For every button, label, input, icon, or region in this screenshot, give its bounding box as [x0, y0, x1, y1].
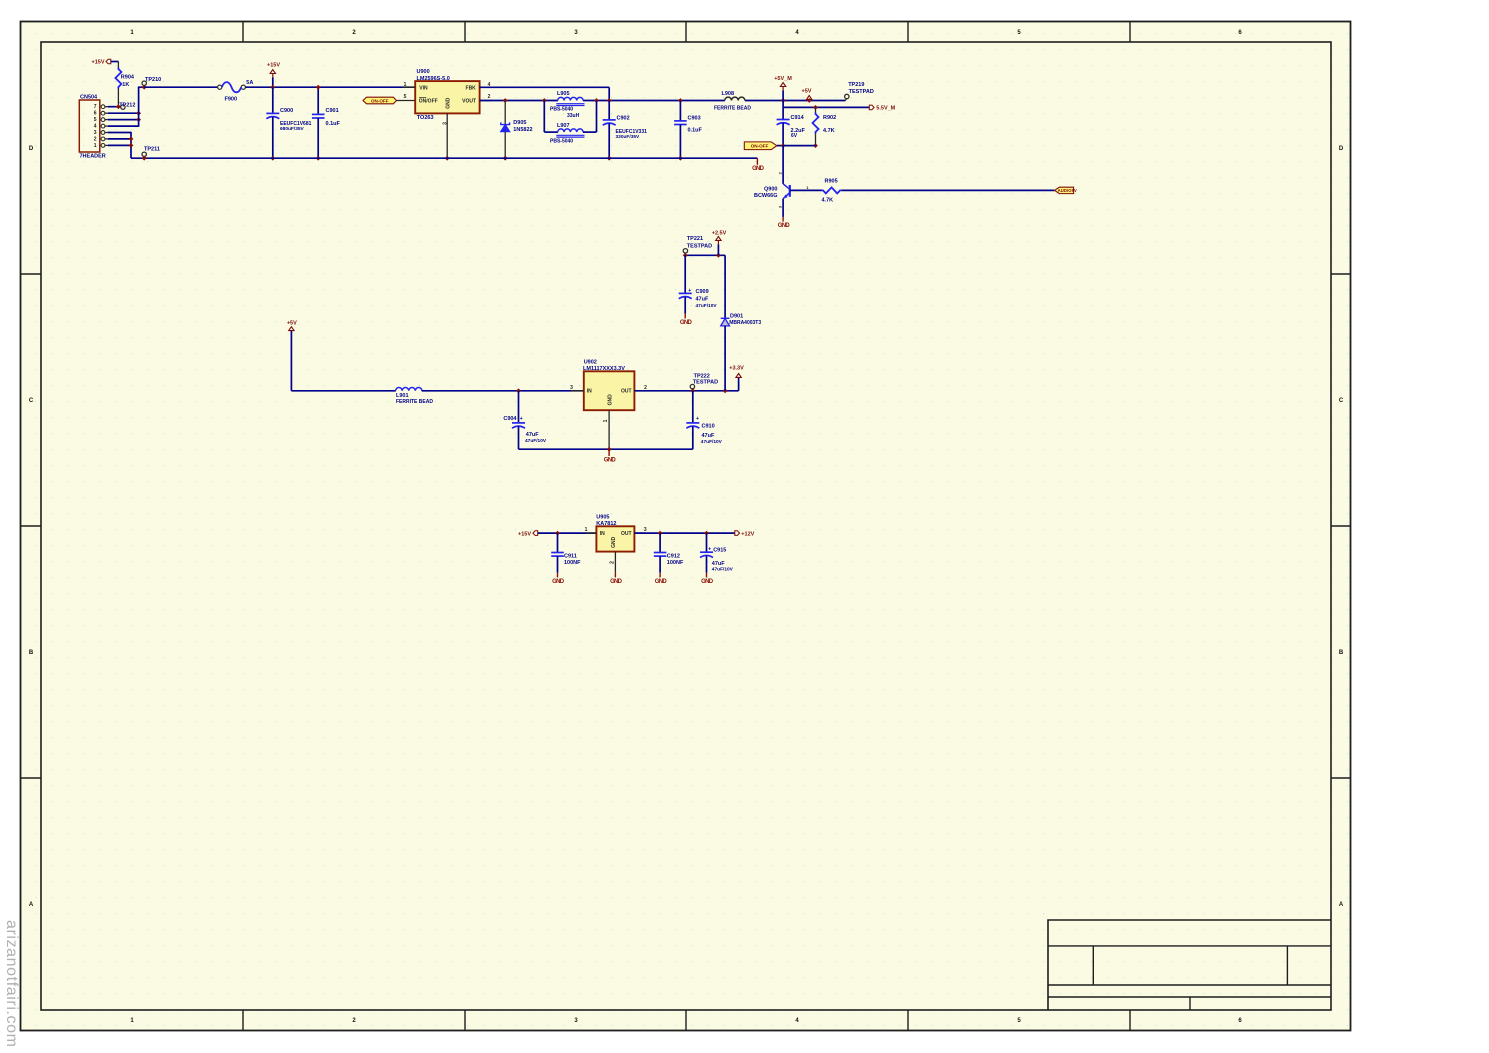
svg-text:GND: GND — [680, 320, 693, 326]
junction — [142, 156, 147, 161]
svg-text:FBK: FBK — [466, 85, 477, 91]
svg-text:+3.3V: +3.3V — [729, 365, 744, 371]
ground — [782, 217, 784, 222]
svg-text:B: B — [29, 650, 34, 656]
svg-text:GND: GND — [611, 536, 617, 548]
svg-text:VOUT: VOUT — [462, 98, 476, 104]
wire pin5 — [108, 119, 139, 121]
watermark — [2, 920, 20, 1048]
svg-text:+15V: +15V — [267, 62, 280, 68]
testpad TP210 — [142, 81, 146, 85]
svg-text:AUDIO5V: AUDIO5V — [1058, 188, 1077, 193]
svg-text:L907: L907 — [557, 123, 570, 129]
svg-text:+12V: +12V — [741, 531, 754, 537]
svg-text:GND: GND — [752, 166, 765, 172]
ground — [614, 573, 616, 578]
svg-text:C915: C915 — [713, 548, 726, 554]
svg-text:FERRITE BEAD: FERRITE BEAD — [396, 399, 433, 405]
capacitor C915 — [704, 531, 709, 536]
wire on-off net to R902 — [783, 145, 815, 147]
svg-text:C: C — [29, 398, 34, 404]
svg-text:47uF/10V: 47uF/10V — [525, 438, 547, 444]
svg-text:6V: 6V — [791, 133, 798, 139]
svg-text:33uH: 33uH — [567, 113, 580, 119]
svg-text:3: 3 — [570, 385, 573, 391]
ferrite bead L901 — [396, 388, 422, 391]
svg-text:+5V_M: +5V_M — [774, 76, 792, 82]
svg-text:C900: C900 — [280, 108, 293, 114]
svg-text:GND: GND — [552, 579, 565, 585]
svg-text:+: + — [696, 416, 699, 422]
svg-text:0.1uF: 0.1uF — [326, 121, 341, 127]
wire — [782, 101, 784, 108]
svg-text:47uF: 47uF — [526, 432, 539, 438]
svg-text:2: 2 — [609, 561, 615, 564]
svg-text:5.5V_M: 5.5V_M — [876, 105, 895, 111]
zone ticks top/bottom — [242, 22, 244, 43]
svg-text:R904: R904 — [121, 74, 135, 80]
wire vertical to bottom rail — [130, 132, 132, 158]
port 5.5V_M — [869, 105, 874, 110]
wire U905 GND pin — [614, 552, 616, 573]
svg-text:TESTPAD: TESTPAD — [687, 243, 712, 249]
svg-text:TO263: TO263 — [417, 115, 434, 121]
junction — [270, 156, 275, 161]
ground — [756, 158, 758, 165]
svg-text:5A: 5A — [246, 80, 253, 86]
svg-text:PBS-5040: PBS-5040 — [550, 107, 573, 113]
svg-text:C912: C912 — [667, 554, 680, 560]
svg-text:5: 5 — [94, 117, 97, 123]
svg-text:C909: C909 — [696, 289, 709, 295]
wire VOUT rail — [480, 100, 558, 102]
fuse F900 5A — [218, 85, 222, 89]
svg-text:47uF: 47uF — [702, 433, 715, 439]
wire pin4 — [108, 125, 139, 127]
svg-text:C901: C901 — [326, 108, 339, 114]
wire to pin5 — [397, 100, 416, 102]
svg-text:BCW66G: BCW66G — [754, 193, 778, 199]
svg-text:4.7K: 4.7K — [822, 198, 834, 204]
ground — [684, 314, 686, 319]
regulator U905 KA7812 — [596, 526, 634, 551]
svg-text:R902: R902 — [823, 115, 836, 121]
junction — [116, 104, 121, 109]
svg-text:47uF: 47uF — [696, 297, 709, 303]
input flag ON-OFF — [363, 97, 397, 104]
wire U902 GND pin — [608, 410, 610, 449]
junction — [445, 156, 450, 161]
junction — [270, 85, 275, 90]
svg-text:GND: GND — [655, 579, 668, 585]
ground — [706, 573, 708, 578]
capacitor C902 — [607, 98, 612, 103]
junction — [129, 143, 134, 148]
svg-text:C911: C911 — [564, 554, 577, 560]
svg-text:ON/OFF: ON/OFF — [419, 98, 438, 104]
svg-text:A: A — [29, 902, 34, 908]
svg-text:D: D — [1339, 146, 1344, 152]
wire U900 GND pin to rail — [446, 113, 448, 158]
svg-text:GND: GND — [608, 394, 614, 406]
svg-text:FERRITE BEAD: FERRITE BEAD — [714, 105, 751, 111]
svg-text:KA7812: KA7812 — [596, 521, 616, 527]
junction — [142, 85, 147, 90]
power +2.5V — [716, 253, 721, 258]
svg-text:1: 1 — [603, 419, 609, 422]
inductor L905 — [542, 98, 547, 103]
svg-text:2: 2 — [94, 136, 97, 142]
flag AUDIO5V — [1055, 187, 1074, 193]
wire — [117, 89, 119, 107]
svg-text:7: 7 — [94, 104, 97, 110]
svg-text:330uF/35V: 330uF/35V — [616, 134, 641, 140]
svg-text:TP222: TP222 — [694, 373, 710, 379]
svg-text:5: 5 — [404, 94, 407, 100]
svg-text:6: 6 — [94, 111, 97, 117]
pin stub U900 VIN — [403, 86, 416, 88]
wire main +15V rail — [144, 86, 218, 88]
connector CN504 — [79, 100, 100, 152]
svg-text:D: D — [29, 146, 34, 152]
svg-text:3: 3 — [644, 527, 647, 533]
wire base to R905 — [790, 189, 822, 191]
svg-text:+: + — [708, 547, 711, 553]
svg-text:D901: D901 — [730, 313, 743, 319]
svg-text:TESTPAD: TESTPAD — [693, 380, 718, 386]
ferrite bead L908 — [725, 97, 745, 100]
zone ticks left/right — [21, 273, 42, 275]
wire pin2 — [108, 138, 131, 140]
svg-text:IN: IN — [600, 531, 605, 537]
svg-text:1N5822: 1N5822 — [513, 127, 532, 133]
testpad TP222 — [690, 384, 694, 388]
svg-text:7HEADER: 7HEADER — [80, 153, 106, 159]
title block — [1048, 920, 1331, 1010]
svg-text:GND: GND — [604, 457, 617, 463]
port +12V — [735, 531, 740, 536]
svg-text:ON-OFF: ON-OFF — [751, 143, 769, 148]
wire top branch — [685, 254, 725, 256]
testpad TP221 — [683, 249, 687, 253]
capacitor C911 — [555, 531, 560, 536]
svg-text:GND: GND — [778, 223, 791, 229]
svg-text:B: B — [1339, 650, 1344, 656]
wire pin1 — [108, 144, 131, 146]
svg-text:+15V: +15V — [92, 59, 105, 65]
svg-text:680uF/35V: 680uF/35V — [280, 126, 305, 132]
svg-text:L905: L905 — [557, 91, 570, 97]
inductor L907 parallel branch — [543, 101, 545, 133]
testpad TP219 — [845, 99, 846, 101]
svg-text:U905: U905 — [596, 515, 609, 521]
wire pin7 to TP212 — [108, 106, 121, 108]
svg-text:LM1117XXX3.3V: LM1117XXX3.3V — [583, 366, 625, 372]
svg-text:ON-OFF: ON-OFF — [371, 98, 389, 103]
svg-text:TP219: TP219 — [848, 82, 864, 88]
svg-text:Q900: Q900 — [764, 186, 777, 192]
wire OUT rail bottom — [634, 532, 734, 534]
svg-text:2: 2 — [488, 94, 491, 100]
wire emitter — [782, 199, 784, 217]
diode D901 MBRA4003T3 — [724, 255, 726, 318]
junction — [136, 111, 141, 116]
power +5V_M — [781, 98, 786, 103]
svg-text:47uF/10V: 47uF/10V — [701, 439, 723, 445]
svg-text:R905: R905 — [825, 178, 838, 184]
svg-text:+2.5V: +2.5V — [712, 230, 727, 236]
svg-text:GND: GND — [610, 579, 623, 585]
pin stub U905 OUT — [634, 532, 645, 534]
svg-text:TESTPAD: TESTPAD — [849, 89, 874, 95]
wire — [538, 532, 597, 534]
junction — [136, 117, 141, 122]
ground — [608, 449, 610, 456]
svg-text:L908: L908 — [722, 91, 735, 97]
wire — [422, 390, 584, 392]
junction — [594, 98, 599, 103]
junction — [129, 137, 134, 142]
svg-text:0.1uF: 0.1uF — [688, 127, 703, 133]
junction — [316, 85, 321, 90]
testpad TP211 — [142, 152, 146, 156]
wire OUT rail — [634, 390, 738, 392]
output flag ON-OFF — [744, 142, 777, 150]
capacitor C909 — [684, 255, 686, 293]
capacitor C903 — [678, 98, 683, 103]
net 5.5V_M line — [783, 106, 869, 108]
wire — [777, 145, 783, 147]
svg-text:3: 3 — [94, 130, 97, 136]
svg-text:U900: U900 — [417, 69, 430, 75]
regulator U900 LM2596S-5.0 — [415, 81, 479, 113]
svg-text:TP211: TP211 — [144, 147, 160, 153]
diode D905 1N5822 — [503, 98, 508, 103]
capacitor C900 — [272, 87, 274, 113]
svg-text:100NF: 100NF — [667, 560, 684, 566]
svg-text:47uF/10V: 47uF/10V — [712, 567, 734, 573]
svg-text:1: 1 — [94, 143, 97, 149]
resistor R904 — [115, 68, 121, 89]
svg-text:4.7K: 4.7K — [823, 128, 835, 134]
svg-text:OUT: OUT — [621, 389, 632, 395]
capacitor C912 — [658, 531, 663, 536]
pin stub U900 VOUT — [480, 100, 493, 102]
wire — [111, 61, 119, 63]
wire — [245, 86, 415, 88]
pin stub U900 FBK — [480, 86, 493, 88]
ground rail mid — [519, 448, 693, 450]
svg-text:OUT: OUT — [621, 531, 632, 537]
ground rail bottom — [131, 157, 757, 159]
svg-text:U902: U902 — [584, 360, 597, 366]
svg-text:GND: GND — [701, 579, 714, 585]
svg-text:F900: F900 — [225, 96, 238, 102]
transistor Q900 BCW66G — [782, 146, 784, 184]
wire pin6 — [108, 112, 139, 114]
pin stub U902 IN — [571, 390, 584, 392]
svg-text:C: C — [1339, 398, 1344, 404]
wire to AUDIO5V — [842, 189, 1055, 191]
svg-text:+: + — [688, 288, 691, 294]
svg-text:TP212: TP212 — [119, 103, 135, 109]
svg-text:C902: C902 — [617, 115, 630, 121]
svg-text:47uF: 47uF — [712, 561, 725, 567]
resistor R902 — [813, 105, 818, 110]
testpad TP212 — [121, 105, 125, 109]
svg-text:1: 1 — [585, 527, 588, 533]
svg-text:EEUFC1V681: EEUFC1V681 — [280, 121, 312, 127]
svg-text:+5V: +5V — [287, 321, 297, 327]
svg-text:C903: C903 — [688, 115, 701, 121]
svg-text:VIN: VIN — [419, 85, 428, 91]
capacitor C901 — [317, 87, 319, 114]
svg-text:47uF/10V: 47uF/10V — [696, 303, 718, 309]
svg-text:+15V: +15V — [518, 531, 531, 537]
svg-text:L901: L901 — [396, 393, 409, 399]
svg-text:TP210: TP210 — [145, 77, 161, 83]
svg-text:TP221: TP221 — [687, 236, 703, 242]
capacitor C914 — [782, 107, 784, 119]
svg-text:4: 4 — [94, 124, 97, 130]
svg-text:A: A — [1339, 902, 1344, 908]
svg-text:C910: C910 — [702, 423, 715, 429]
wire — [291, 390, 395, 392]
resistor R905 — [822, 187, 842, 193]
svg-text:+5V: +5V — [802, 89, 812, 95]
svg-text:CN504: CN504 — [80, 94, 98, 100]
svg-text:MBRA4003T3: MBRA4003T3 — [729, 320, 761, 326]
wire FBK feedback — [480, 86, 610, 88]
wire pin3 — [108, 132, 131, 134]
junction — [316, 156, 321, 161]
ground — [557, 573, 559, 578]
svg-text:PBS-5040: PBS-5040 — [550, 139, 573, 145]
svg-text:IN: IN — [587, 389, 592, 395]
svg-text:+: + — [520, 416, 523, 422]
svg-text:2: 2 — [644, 385, 647, 391]
inner border — [41, 42, 1331, 1010]
pin stub U902 OUT — [634, 390, 647, 392]
svg-text:C904: C904 — [503, 416, 517, 422]
svg-text:100NF: 100NF — [564, 560, 581, 566]
ground — [659, 573, 661, 578]
power +5V — [807, 98, 812, 103]
pin stub U905 IN — [586, 532, 597, 534]
capacitor C904 — [516, 388, 521, 393]
svg-text:D905: D905 — [513, 120, 526, 126]
power +3.3V — [738, 377, 740, 390]
svg-text:1K: 1K — [122, 82, 129, 88]
regulator U902 LM1117 — [584, 371, 635, 410]
svg-text:C914: C914 — [791, 115, 805, 121]
svg-text:EEUFC1V331: EEUFC1V331 — [616, 129, 648, 135]
svg-text:LM2596S-5.0: LM2596S-5.0 — [417, 76, 450, 82]
svg-text:GND: GND — [446, 97, 452, 109]
junction — [781, 143, 786, 148]
capacitor C910 — [692, 391, 694, 423]
wire bus vertical — [138, 87, 140, 127]
